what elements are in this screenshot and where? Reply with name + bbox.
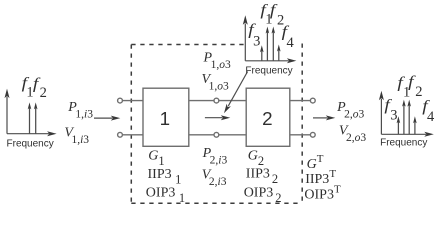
- svg-text:OIP32: OIP32: [244, 186, 282, 206]
- left spectrum impulse f2: [34, 102, 38, 133]
- svg-text:3: 3: [253, 34, 260, 50]
- left spectrum label f1: [22, 74, 34, 101]
- svg-text:G1: G1: [148, 148, 164, 168]
- output flow arrow: [313, 115, 335, 120]
- svg-text:V2,i3: V2,i3: [202, 167, 227, 188]
- svg-text:Frequency: Frequency: [245, 65, 292, 76]
- stage 1 block: [143, 88, 189, 146]
- right spectrum label f1: [397, 74, 410, 101]
- right spectrum impulse f2: [407, 100, 411, 135]
- output wire top: [290, 98, 315, 103]
- interstage flow arrow: [205, 115, 230, 120]
- input port terminal bottom: [118, 132, 143, 137]
- svg-text:4: 4: [287, 35, 295, 51]
- svg-text:3: 3: [390, 108, 397, 124]
- input arrow: [94, 116, 120, 121]
- svg-text:OIP31: OIP31: [146, 186, 185, 206]
- right spectrum label f4: [422, 97, 435, 125]
- svg-text:V2,o3: V2,o3: [339, 123, 366, 144]
- svg-text:GT: GT: [307, 153, 324, 172]
- middle spectrum label f4: [282, 22, 295, 51]
- spectrum pointer arrow: [224, 72, 248, 114]
- svg-text:P1,i3: P1,i3: [67, 100, 93, 121]
- svg-text:Frequency: Frequency: [380, 137, 427, 148]
- interstage wire bottom: [189, 132, 246, 137]
- left spectrum label f2: [33, 74, 47, 101]
- svg-text:IIP32: IIP32: [246, 167, 278, 187]
- left spectrum y-axis: [5, 89, 10, 134]
- input port terminal top: [118, 98, 143, 103]
- right spectrum impulse f4: [413, 116, 417, 134]
- svg-text:2: 2: [40, 85, 47, 101]
- middle spectrum x-axis: [245, 58, 296, 63]
- middle spectrum label f1: [260, 1, 272, 28]
- svg-text:IIP31: IIP31: [148, 167, 182, 187]
- svg-text:2: 2: [262, 108, 272, 129]
- middle spectrum impulse f2: [272, 27, 276, 61]
- output wire bottom: [290, 132, 315, 137]
- right spectrum impulse f3: [397, 116, 401, 134]
- svg-text:G2: G2: [248, 149, 264, 169]
- svg-text:V1,o3: V1,o3: [202, 72, 229, 93]
- dashed system boundary box: [131, 44, 302, 204]
- svg-text:P2,i3: P2,i3: [202, 146, 228, 167]
- svg-text:1: 1: [160, 108, 170, 129]
- stage 2 block: [246, 88, 290, 146]
- middle spectrum label f3: [248, 20, 260, 49]
- left spectrum impulse f1: [28, 102, 32, 133]
- left spectrum x-axis: [7, 131, 57, 136]
- right spectrum y-axis: [379, 91, 384, 135]
- svg-text:V1,i3: V1,i3: [64, 126, 89, 147]
- right spectrum label f2: [408, 72, 422, 100]
- svg-text:P1,o3: P1,o3: [203, 51, 231, 71]
- middle spectrum impulse f4: [277, 45, 281, 61]
- right spectrum x-axis: [381, 132, 433, 137]
- svg-text:Frequency: Frequency: [7, 139, 54, 150]
- svg-text:4: 4: [427, 109, 435, 125]
- middle spectrum y-axis: [243, 15, 248, 61]
- interstage wire top: [189, 98, 246, 103]
- middle spectrum impulse f1: [266, 27, 270, 61]
- middle spectrum impulse f3: [260, 45, 264, 61]
- right spectrum label f3: [384, 96, 397, 124]
- svg-text:P2,o3: P2,o3: [336, 100, 364, 121]
- right spectrum impulse f1: [402, 100, 406, 135]
- middle spectrum label f2: [270, 1, 284, 29]
